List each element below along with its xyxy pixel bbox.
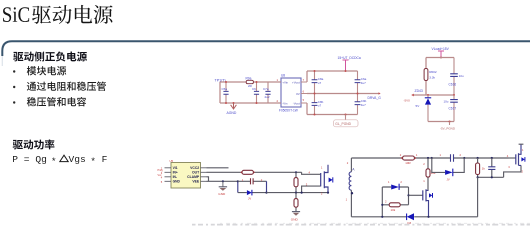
svg-text:AGND: AGND [227, 111, 237, 115]
wire B top rail [426, 57, 454, 59]
wire VEE row [207, 180, 238, 182]
wire -Vout drop [306, 103, 308, 115]
svg-text:GL_PGND: GL_PGND [335, 122, 351, 126]
svg-text:-Vout: -Vout [293, 101, 300, 105]
svg-text:CLAMP: CLAMP [187, 175, 200, 179]
bullet list [13, 70, 15, 72]
capacitor C6a [355, 71, 367, 94]
wire Q2 drain riser [428, 189, 430, 191]
wire return row [267, 192, 329, 194]
node rail-1k [477, 157, 479, 159]
svg-text:OUT: OUT [192, 170, 200, 174]
resistor 1k [476, 158, 486, 177]
heading 驱动侧正负电源 [13, 52, 87, 62]
svg-text:GND: GND [218, 192, 226, 196]
svg-text:2u2: 2u2 [265, 95, 270, 99]
power port GL_PGND [334, 114, 359, 127]
svg-text:IN+: IN+ [173, 170, 178, 174]
capacitor C616 [449, 58, 465, 96]
wire input left vertical [219, 82, 221, 103]
diode Dg [238, 190, 267, 201]
svg-text:C616: C616 [449, 82, 457, 86]
svg-text:15+UT_DCDCa: 15+UT_DCDCa [338, 56, 361, 60]
resistor R602 [424, 69, 437, 81]
capacitor C7a [263, 82, 271, 103]
resistor R2 pulldown [294, 193, 298, 212]
wire 0V mid rail [307, 93, 376, 95]
svg-text:GND: GND [173, 179, 181, 183]
capacitor Cs series [431, 153, 466, 162]
wire B left column [425, 58, 427, 96]
svg-text:C617: C617 [449, 106, 457, 110]
capacitor C6 [252, 82, 259, 103]
pin stubs left [165, 168, 172, 182]
wire source sense Q1 [302, 186, 321, 193]
ground GND driver [218, 180, 227, 196]
resistor R9a [246, 77, 254, 88]
transistor Q1 MOSFET [321, 165, 333, 196]
svg-text:R9a: R9a [246, 77, 252, 81]
diode D2 [382, 180, 408, 190]
svg-text:+Vout: +Vout [292, 80, 300, 84]
pin stubs right [201, 168, 207, 182]
wire input bottom rail [220, 102, 281, 104]
capacitor C617 [444, 94, 458, 122]
wire B mid rail [414, 94, 455, 96]
svg-text:JV: JV [447, 178, 450, 182]
svg-text:10k: 10k [391, 208, 396, 212]
capacitor Cgs [488, 157, 495, 177]
diode D3 bottom [407, 213, 414, 225]
node rail-R10k [427, 157, 429, 159]
op-amp U5 gate driver IC [158, 159, 207, 188]
resistor 10k drain [423, 158, 436, 190]
svg-text:10u: 10u [444, 100, 449, 104]
svg-text:U5: U5 [170, 159, 174, 163]
wire CLAMP jog [207, 177, 209, 182]
wire VCC2 stub [207, 167, 229, 169]
heading 驱动功率 [13, 139, 55, 149]
node divider mid [295, 192, 297, 194]
wire right top rail [351, 157, 508, 159]
resistor Rg [241, 170, 255, 174]
svg-text:u7: u7 [318, 104, 322, 108]
power net VLoad+15V [432, 47, 450, 59]
panel border top line with rounded corner [2, 41, 530, 56]
svg-text:VI1: VI1 [173, 166, 178, 170]
svg-text:F: F [102, 154, 108, 165]
ground AGND [227, 103, 237, 115]
wire +Vout riser [306, 71, 308, 82]
junction dots rails [314, 93, 316, 95]
capacitor Cg [238, 178, 267, 184]
svg-text:VCC2: VCC2 [190, 166, 199, 170]
wire gate Q2 [409, 194, 423, 196]
svg-text:*: * [90, 156, 96, 167]
svg-text:C5a: C5a [222, 87, 228, 91]
junction dots input [225, 81, 227, 83]
node +5V0 arrow [404, 94, 414, 103]
power stub Q3 drain [519, 143, 524, 145]
capacitor C5a [222, 82, 229, 103]
inductor LA primary [346, 158, 356, 217]
wire clamp right vertical [266, 181, 268, 192]
wire clamp left vertical [237, 181, 239, 192]
power net 15+UT_DCDCa [338, 56, 361, 72]
svg-text:P = Qg: P = Qg [12, 154, 47, 165]
svg-text:R602: R602 [429, 70, 437, 74]
svg-text:U8: U8 [281, 74, 285, 78]
capacitor C9b [355, 94, 367, 115]
svg-text:Vgs: Vgs [69, 154, 86, 165]
formula P = Qg * dVgs * F [12, 154, 107, 167]
artifact: cut-off caption text at bottom edge [192, 223, 530, 224]
wire input top rail [220, 81, 281, 83]
svg-text:3.3k: 3.3k [429, 76, 435, 80]
svg-text:*: * [51, 156, 57, 167]
svg-text:+Vin: +Vin [282, 80, 288, 84]
svg-text:10R: 10R [405, 161, 410, 165]
wire OUT row [207, 171, 302, 173]
ground divider [291, 212, 300, 222]
svg-text:Prog: Prog [158, 169, 164, 172]
wire bottom rail [351, 216, 477, 218]
capacitor C8a [312, 71, 324, 94]
svg-text:IN-: IN- [173, 175, 177, 179]
wire source return row [478, 176, 504, 178]
resistor 10k gate [382, 199, 408, 212]
svg-text:-5V_PGND: -5V_PGND [440, 126, 456, 130]
transistor Q3 MOSFET [507, 145, 525, 166]
svg-text:0V: 0V [296, 92, 300, 96]
wire gate jog Q1 [302, 172, 321, 174]
svg-text:ZD43: ZD43 [415, 89, 423, 93]
transistor Q2 MOSFET [423, 189, 433, 217]
svg-text:u7: u7 [318, 81, 322, 85]
svg-text:C6: C6 [252, 87, 256, 91]
svg-text:VEE: VEE [192, 179, 200, 183]
svg-text:1k: 1k [482, 166, 486, 170]
resistor 10R [400, 153, 418, 165]
power port -5V_PGND [440, 121, 456, 131]
svg-text:-Vin: -Vin [282, 101, 288, 105]
capacitor C8b [312, 94, 324, 115]
zener diode ZD43 [416, 94, 432, 122]
resistor R1 gate-source [294, 172, 298, 192]
op-amp U8 DC-DC module [275, 74, 307, 113]
svg-text:JV: JV [248, 196, 251, 200]
wire top rail [307, 70, 358, 72]
svg-text:DRVA_G: DRVA_G [368, 96, 382, 100]
svg-text:C7a: C7a [263, 87, 269, 91]
node gate junction [295, 171, 297, 173]
node DRVA_G output arrow [368, 92, 382, 100]
svg-text:-5V0: -5V0 [404, 98, 411, 102]
wire pair right vertical [408, 187, 410, 205]
slide title "SiC驱动电源" [3, 5, 113, 24]
svg-text:4u7: 4u7 [361, 81, 366, 85]
wire long drop [477, 177, 479, 217]
wire B bottom rail [428, 121, 454, 123]
wire pair left vertical [381, 187, 383, 217]
wire Q3 source bracket [504, 165, 521, 177]
svg-text:4u7: 4u7 [361, 103, 366, 107]
svg-text:GND: GND [291, 217, 299, 221]
svg-text:10u: 10u [459, 74, 464, 78]
svg-text:VLoad+15V: VLoad+15V [432, 47, 450, 51]
diode Ds parallel [432, 158, 464, 182]
svg-text:F0505XT-1W: F0505XT-1W [279, 109, 298, 113]
wire bottom rail [307, 114, 358, 116]
